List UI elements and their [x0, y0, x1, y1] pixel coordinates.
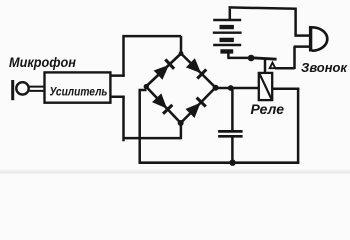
svg-text:Звонок: Звонок [301, 60, 348, 75]
svg-text:Микрофон: Микрофон [9, 55, 76, 70]
svg-text:Усилитель: Усилитель [50, 85, 108, 99]
svg-text:Реле: Реле [251, 102, 285, 117]
